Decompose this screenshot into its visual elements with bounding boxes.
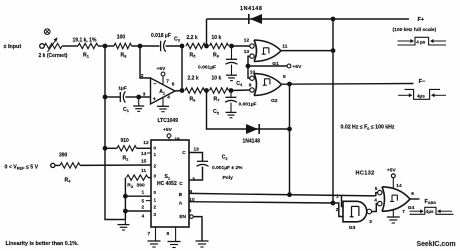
svg-text:HC 4052: HC 4052 — [157, 181, 177, 187]
node: G1 out / vertical — [331, 48, 336, 53]
svg-text:1: 1 — [142, 189, 145, 195]
svg-text:R9: R9 — [213, 52, 220, 58]
svg-text:LTC1049: LTC1049 — [158, 118, 179, 124]
svg-text:2: 2 — [154, 163, 157, 168]
input terminal (± Input) — [4, 44, 45, 50]
node: A line / F+ vertical — [331, 201, 336, 206]
+5V terminal mux pin 16 — [163, 127, 180, 142]
wire R7 to G2 pin 9 — [231, 89, 250, 92]
svg-text:1: 1 — [154, 197, 157, 202]
wire op-amp out — [175, 90, 182, 93]
svg-text:EN: EN — [179, 214, 186, 220]
svg-text:S1: S1 — [165, 174, 171, 180]
svg-text:3: 3 — [369, 219, 372, 225]
svg-text:0.018 µF: 0.018 µF — [151, 33, 171, 39]
resistor R3 390 — [127, 175, 152, 189]
wire G2 output to F- — [282, 83, 414, 86]
svg-text:F−: F− — [419, 79, 426, 85]
potentiometer 2k cermet — [39, 37, 68, 59]
svg-text:13: 13 — [194, 147, 200, 153]
svg-text:2 k (Cermet): 2 k (Cermet) — [39, 53, 68, 59]
svg-text:R5: R5 — [190, 52, 197, 58]
svg-text:C3: C3 — [174, 36, 181, 42]
svg-text:13: 13 — [244, 49, 250, 55]
wire: G3 out to G4 pin 4 — [372, 204, 378, 212]
ground G4 pin 7 — [387, 209, 400, 223]
wire: R6/R7 node down to diode D2 — [207, 91, 290, 130]
svg-text:4: 4 — [142, 214, 145, 220]
svg-text:390: 390 — [59, 152, 68, 158]
+5V terminal near G1 — [287, 64, 302, 70]
wire: C3 node to op-amp pin 2 — [140, 46, 151, 78]
svg-text:± Input: ± Input — [4, 44, 22, 50]
resistor R7 10k — [210, 76, 229, 103]
wire: G3 pin1 tap — [342, 196, 344, 207]
label F- — [419, 79, 426, 85]
node: Y-bus tap 2 — [123, 209, 128, 214]
svg-text:14: 14 — [396, 183, 402, 189]
wire: mux pin 9 (B) line — [189, 193, 375, 196]
node: rail/F+ vertical junction — [331, 17, 336, 22]
wire R4 to mux pin 15 — [80, 164, 151, 166]
svg-text:2.2 k: 2.2 k — [188, 76, 199, 82]
diode D2 1N4148 — [243, 124, 261, 144]
svg-text:R2: R2 — [123, 155, 130, 161]
svg-text:11: 11 — [141, 168, 146, 174]
ground at op-amp pin 3 — [133, 97, 144, 111]
node: R9/C4/G1 pin12 junction — [229, 44, 234, 49]
svg-text:7: 7 — [148, 231, 151, 237]
resistor R2 910 — [105, 138, 151, 162]
svg-text:(100 kHz full scale): (100 kHz full scale) — [393, 27, 437, 33]
svg-text:FABS: FABS — [425, 199, 437, 205]
svg-text:0.001µF: 0.001µF — [198, 65, 216, 71]
ground mux pin 7 — [148, 227, 161, 247]
svg-text:+5V: +5V — [163, 127, 173, 133]
label pin 4 — [142, 214, 145, 220]
wire: mux pin 10 (A) line — [189, 202, 333, 203]
wire: R3 left vertical — [124, 178, 126, 220]
capacitor C3 0.018uF — [151, 33, 181, 52]
svg-text:R6: R6 — [190, 96, 197, 102]
svg-text:12: 12 — [244, 38, 250, 44]
label pin 8 — [167, 231, 170, 237]
+5V terminal op-amp pin 7 — [157, 66, 167, 85]
wire G1 output to F+ vertical — [281, 50, 333, 52]
svg-text:R4: R4 — [65, 177, 72, 183]
svg-text:1N4148: 1N4148 — [243, 138, 261, 144]
svg-text:0: 0 — [154, 146, 157, 151]
mux EN pin to ground — [190, 215, 209, 247]
note linearity — [6, 241, 80, 247]
wire G4 output — [410, 198, 420, 200]
node: pin3/C1 — [136, 95, 141, 100]
svg-text:6: 6 — [411, 191, 414, 197]
label pin 14 with stub — [141, 151, 151, 157]
node: R1/R8 junction — [103, 44, 108, 49]
svg-text:2.2 k: 2.2 k — [187, 35, 198, 41]
label pin 15 — [141, 159, 147, 165]
svg-text:R1: R1 — [83, 52, 90, 58]
label frequency range — [341, 125, 395, 131]
label pin 2 — [142, 205, 145, 211]
ground op-amp pin 4 — [157, 97, 169, 111]
svg-text:4µs: 4µs — [426, 209, 434, 214]
label pin 1 G3 — [336, 193, 339, 199]
svg-text:0.02 Hz ≤ F0 ≤ 100 kHz: 0.02 Hz ≤ F0 ≤ 100 kHz — [341, 125, 395, 131]
waveform F- notch 4us — [398, 89, 446, 99]
label pin 10 — [250, 70, 256, 76]
label HC132 — [356, 171, 375, 177]
wire: Y bus to pins 2/4 — [125, 210, 151, 212]
wire: pin5 jog — [375, 193, 378, 196]
label pin 5 with stub — [142, 199, 152, 205]
svg-text:5: 5 — [142, 199, 145, 205]
wire: top diode rail — [207, 18, 410, 20]
node: G2 out junction — [287, 82, 292, 87]
diode D1 1N4148 — [240, 6, 262, 24]
gate G4 HC132 (negative-OR schmitt) — [374, 183, 414, 215]
svg-text:3: 3 — [154, 174, 157, 179]
svg-text:1: 1 — [336, 193, 339, 199]
node: R5/R9 junction — [204, 44, 209, 49]
ground mux pin 8 — [168, 227, 181, 248]
svg-text:4µs: 4µs — [417, 94, 425, 99]
svg-text:910: 910 — [121, 138, 130, 144]
svg-text:F+: F+ — [418, 17, 425, 23]
svg-text:4 µs: 4 µs — [416, 39, 425, 44]
svg-text:Linearity is better than 0.1%.: Linearity is better than 0.1%. — [6, 241, 80, 247]
node: C3/R5 junction — [180, 44, 185, 49]
watermark SeekIC.com — [417, 241, 456, 248]
svg-text:B: B — [179, 192, 183, 198]
wire: F+ vertical bus — [332, 19, 334, 203]
svg-text:3: 3 — [192, 177, 195, 183]
svg-text:8: 8 — [283, 74, 286, 80]
wire R9 to G1 pin 12 — [232, 45, 251, 47]
svg-text:R8: R8 — [121, 52, 128, 58]
resistor R4 390 — [55, 152, 80, 183]
resistor R6 2.2k — [185, 76, 205, 103]
svg-text:390: 390 — [137, 183, 145, 189]
label pin 6 — [189, 208, 192, 214]
svg-text:C2: C2 — [222, 155, 229, 161]
svg-text:7: 7 — [166, 79, 169, 85]
svg-text:0.001µF: 0.001µF — [239, 101, 257, 107]
resistor R9 10k — [210, 35, 229, 58]
node: R7/C5/G2 pin9 junction — [229, 88, 234, 93]
wire R1 to R8 — [98, 45, 114, 47]
node: R6/R7 junction — [204, 88, 209, 93]
svg-text:7: 7 — [402, 209, 405, 215]
node: Y-bus tap 1 — [123, 194, 128, 199]
label pin 11 — [141, 168, 146, 174]
svg-text:0 < VREF ≤ 5 V: 0 < VREF ≤ 5 V — [5, 164, 39, 170]
svg-text:4: 4 — [374, 198, 377, 204]
svg-text:+5V: +5V — [387, 168, 397, 174]
svg-text:5: 5 — [375, 186, 378, 192]
svg-text:1: 1 — [154, 152, 157, 157]
svg-text:C4: C4 — [236, 81, 243, 87]
svg-text:C1: C1 — [123, 107, 130, 113]
trimmer adjust symbol — [44, 29, 50, 35]
multiplexer S1 HC4052 body — [151, 140, 189, 227]
node: D2 cathode junction — [287, 127, 292, 132]
svg-text:SeekIC.com: SeekIC.com — [417, 241, 456, 248]
svg-text:+5V: +5V — [293, 64, 303, 70]
svg-text:C: C — [182, 150, 186, 156]
label F+ — [418, 17, 425, 23]
svg-text:8: 8 — [167, 231, 170, 237]
svg-text:−: − — [153, 81, 156, 87]
label pin 12 — [143, 140, 149, 146]
node: pin13/pin10 tie — [246, 64, 251, 69]
capacitor C5 0.001uF with ground — [213, 91, 257, 118]
label pin 1 — [142, 189, 145, 195]
+5V terminal G4 pin 14 — [387, 168, 397, 189]
svg-text:12: 12 — [143, 140, 149, 146]
node: op-amp output — [180, 88, 185, 93]
svg-text:G2: G2 — [271, 98, 278, 104]
node: rail/R2 — [103, 146, 108, 151]
svg-text:A: A — [179, 201, 183, 207]
svg-text:HC132: HC132 — [356, 171, 375, 177]
svg-text:1N4148: 1N4148 — [240, 6, 262, 12]
label pin 2 G3 — [336, 207, 339, 213]
wire: C3 right to op-amp output — [181, 46, 183, 91]
waveform F+ pulse 4us — [398, 37, 447, 45]
capacitor C2 0.001uF poly — [189, 147, 243, 183]
gate G3 HC132 (schmitt nand) — [343, 201, 372, 231]
svg-text:9: 9 — [249, 83, 252, 89]
svg-text:C: C — [179, 181, 183, 187]
svg-text:10 k: 10 k — [212, 76, 222, 82]
svg-text:10 k: 10 k — [212, 35, 222, 41]
svg-text:+: + — [153, 96, 156, 102]
wire: G2 out vertical to B line — [289, 84, 291, 195]
wire: G1 pin13 to +5V — [248, 56, 287, 66]
svg-text:Poly: Poly — [223, 175, 234, 181]
svg-text:6: 6 — [189, 208, 192, 214]
label 100 kHz full scale — [393, 27, 437, 33]
label pin 7 — [148, 231, 151, 237]
label pin 10 — [189, 197, 195, 203]
svg-text:C5: C5 — [213, 109, 220, 115]
node: summing junction (op-amp pin 2 tap) — [138, 44, 143, 49]
wire: G3 pin2 path — [333, 203, 343, 217]
wire C3 to R5 — [166, 45, 182, 47]
label pin 9 — [190, 189, 193, 195]
wire: Y bus to pins 1/5 — [125, 195, 151, 197]
svg-text:11: 11 — [282, 44, 287, 50]
svg-text:0: 0 — [154, 190, 157, 195]
svg-text:R3: R3 — [127, 183, 134, 189]
svg-text:4: 4 — [167, 95, 170, 101]
resistor R5 2.2k — [186, 35, 206, 58]
resistor R8 100 — [114, 35, 132, 59]
svg-text:3: 3 — [154, 212, 157, 217]
gate G1 HC132 (negative-OR schmitt) — [244, 38, 288, 67]
svg-text:0.001µF ± 2%: 0.001µF ± 2% — [212, 165, 243, 171]
wire R8 to C3 — [132, 45, 160, 47]
svg-text:G3: G3 — [349, 225, 356, 231]
svg-text:6: 6 — [172, 82, 175, 88]
waveform FABS pulse 4us — [410, 207, 454, 214]
svg-text:A1: A1 — [159, 89, 166, 95]
node: B line / G2-out vertical — [287, 192, 292, 197]
node: C1 left on rail — [103, 95, 108, 100]
wire: tie down to G2 pin 10 — [248, 66, 250, 78]
svg-text:2: 2 — [154, 205, 157, 210]
gate G2 HC132 (negative-OR schmitt) — [249, 74, 286, 104]
wire: summing node down left rail — [105, 46, 119, 220]
svg-text:2: 2 — [142, 205, 145, 211]
capacitor C1 1uF — [105, 86, 139, 113]
svg-text:R7: R7 — [214, 96, 220, 102]
svg-text:15: 15 — [141, 159, 147, 165]
VREF input terminal — [5, 163, 55, 170]
wire: R5/R9 junction up to diode rail — [206, 19, 208, 46]
svg-text:1µF: 1µF — [118, 86, 127, 92]
label FABS — [425, 199, 437, 205]
ground: left rail bottom — [118, 220, 130, 231]
op-amp A1 LTC1049 — [141, 73, 178, 124]
svg-text:14: 14 — [141, 151, 147, 157]
svg-text:+5V: +5V — [157, 66, 167, 72]
wire pot to R1 — [62, 45, 78, 47]
svg-text:100: 100 — [117, 35, 126, 41]
svg-text:19.1 k, 1%: 19.1 k, 1% — [73, 38, 97, 44]
svg-text:2: 2 — [141, 73, 144, 79]
resistor R1 19.1k — [73, 38, 99, 59]
svg-text:G4: G4 — [408, 205, 415, 211]
wire pin3 — [139, 96, 151, 98]
capacitor C4 0.001uF with ground — [198, 46, 243, 87]
